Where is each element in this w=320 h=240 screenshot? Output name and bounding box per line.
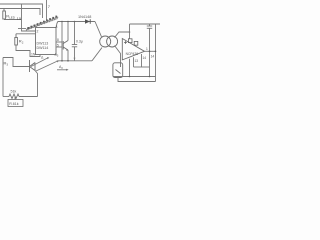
svg-text:R2: R2 xyxy=(19,39,24,45)
wire diode to lens xyxy=(95,22,102,37)
junction dot xyxy=(129,31,131,33)
svg-text:14: 14 xyxy=(151,54,155,58)
top right rail xyxy=(130,23,161,25)
junction dots output xyxy=(149,51,157,53)
svg-text:5: 5 xyxy=(57,43,59,47)
wire collector up xyxy=(67,22,69,41)
wire opamp plus input drop xyxy=(129,24,131,39)
op-amp U2 triangle xyxy=(122,39,144,60)
pin fan numbers xyxy=(27,16,57,29)
lens circle right xyxy=(107,36,118,47)
light ray 2 xyxy=(36,61,57,71)
svg-text:2: 2 xyxy=(37,30,39,34)
wire top rail inner xyxy=(0,9,40,16)
svg-text:R3: R3 xyxy=(4,61,9,67)
wire top rail outer xyxy=(0,4,43,18)
wire RLED bottom to pin15 xyxy=(4,19,22,21)
pin stubs below triangle xyxy=(130,54,150,77)
pin boxes on top edge xyxy=(128,39,137,45)
bottom rail 1 right xyxy=(114,76,156,78)
svg-text:NCP426: NCP426 xyxy=(126,52,139,56)
svg-text:15: 15 xyxy=(17,16,22,21)
wire opamp output xyxy=(145,50,156,52)
wire pin15 branch xyxy=(22,4,36,31)
svg-text:14: 14 xyxy=(143,56,147,60)
capacitor C1 xyxy=(72,22,77,61)
photodetector V1 xyxy=(113,63,123,78)
opamp plus mark xyxy=(124,41,127,44)
transistor arrow xyxy=(66,49,68,51)
junction dots bottom right xyxy=(129,76,151,78)
cap arrow xyxy=(74,58,76,60)
wire pin row to left xyxy=(18,28,26,30)
right rail vertical xyxy=(155,24,157,82)
diode D1 1N4148 xyxy=(85,21,91,23)
svg-text:RLED: RLED xyxy=(6,14,16,20)
wire lens to detector xyxy=(115,46,121,63)
LED D2 xyxy=(30,60,36,72)
svg-text:1N: 1N xyxy=(31,53,36,57)
resistor R2 xyxy=(15,34,18,45)
svg-text:8: 8 xyxy=(56,25,58,29)
svg-text:A2: A2 xyxy=(59,65,63,70)
svg-text:8: 8 xyxy=(57,38,59,42)
value box xyxy=(8,97,23,107)
resistor R_LED xyxy=(3,9,6,20)
svg-text:51k: 51k xyxy=(11,90,17,94)
bottom rail right part xyxy=(19,96,38,98)
svg-text:0.3μ: 0.3μ xyxy=(76,40,83,44)
wire LED emitter down xyxy=(35,71,38,97)
svg-text:Δ: Δ xyxy=(41,56,44,60)
IC pin wires to transistor xyxy=(56,42,62,47)
light ray 1 xyxy=(31,58,48,67)
bottom rail 2 right xyxy=(118,77,156,82)
bus to IC corner curve xyxy=(57,22,59,28)
left rail vertical xyxy=(2,58,4,97)
svg-text:R.61k: R.61k xyxy=(9,102,19,106)
svg-text:13: 13 xyxy=(135,59,139,63)
junction dots on bus xyxy=(61,21,75,23)
wire lens to opamp top xyxy=(115,32,130,38)
wire R2 to pin3 xyxy=(16,33,36,35)
top bus wire xyxy=(58,21,96,23)
pin fan ticks xyxy=(26,17,58,31)
wire base vertical xyxy=(61,22,63,61)
capacitor C2 xyxy=(147,24,152,77)
shelf diagonal to lens xyxy=(92,48,102,61)
svg-text:1N4148: 1N4148 xyxy=(78,15,91,19)
svg-text:Δ5: Δ5 xyxy=(55,53,59,58)
wire emitter down xyxy=(67,50,69,61)
IC U1 box DW113 xyxy=(36,28,57,55)
bottom rail xyxy=(3,96,9,98)
wire R2 bottom to IC bottom xyxy=(16,45,40,57)
annotation arrow A2 xyxy=(57,69,67,71)
resistor R7 zigzag xyxy=(9,94,19,99)
svg-text:7: 7 xyxy=(48,4,51,9)
svg-text:1: 1 xyxy=(146,47,148,51)
junction dots shelf xyxy=(61,60,69,62)
wire R3 staircase xyxy=(3,58,30,67)
pin fan band xyxy=(26,17,58,30)
wire pin7 drop xyxy=(46,0,48,20)
transistor Q1 xyxy=(63,41,68,51)
shelf wire xyxy=(58,60,93,62)
svg-text:DW114: DW114 xyxy=(37,46,49,50)
lens circle left xyxy=(100,36,111,47)
